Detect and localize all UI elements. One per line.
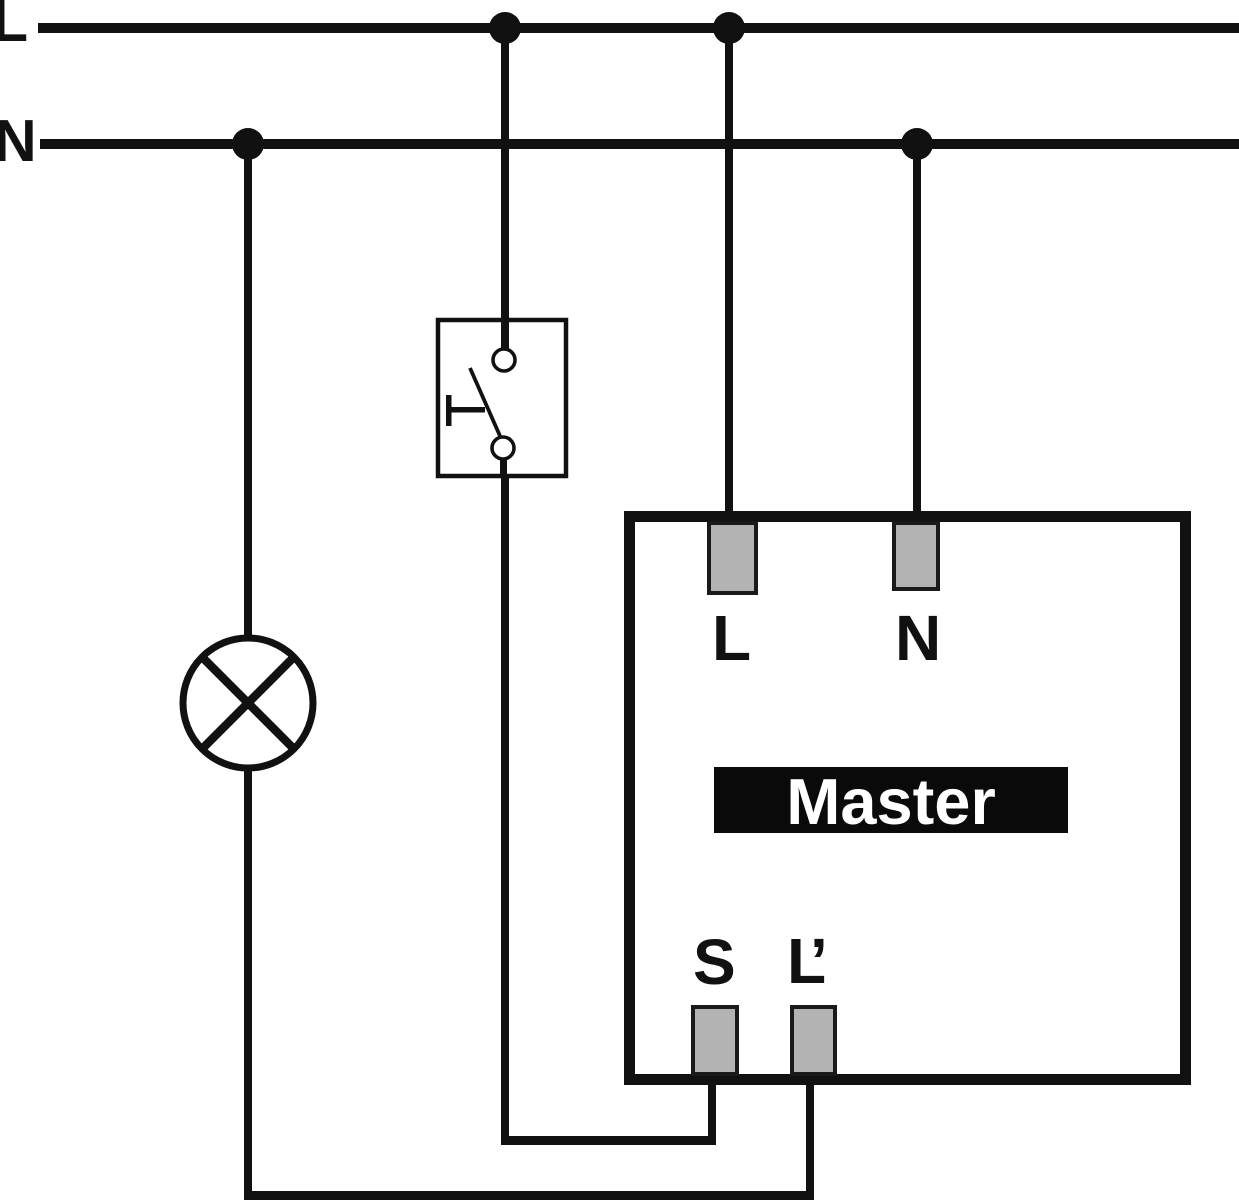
svg-text:’: ’ bbox=[810, 925, 828, 997]
svg-text:L: L bbox=[0, 0, 28, 54]
svg-text:N: N bbox=[0, 108, 37, 174]
svg-text:S: S bbox=[693, 926, 736, 998]
svg-text:L: L bbox=[712, 602, 751, 674]
svg-text:Master: Master bbox=[786, 765, 996, 838]
svg-text:N: N bbox=[895, 602, 941, 674]
